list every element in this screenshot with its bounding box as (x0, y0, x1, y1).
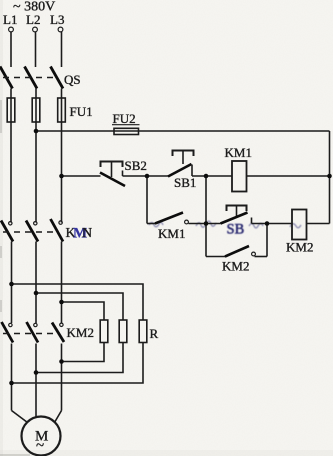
svg-text:FU1: FU1 (70, 104, 93, 119)
svg-text:~: ~ (36, 438, 44, 454)
svg-text:R: R (150, 326, 159, 341)
svg-text:QS: QS (64, 72, 81, 87)
svg-text:FU2: FU2 (113, 111, 136, 126)
svg-text:KM2: KM2 (222, 259, 249, 274)
svg-text:KM1: KM1 (225, 145, 252, 160)
svg-text:KM2: KM2 (286, 240, 313, 255)
svg-text:SB1: SB1 (174, 175, 196, 190)
svg-text:SB2: SB2 (125, 158, 147, 173)
svg-text:L3: L3 (50, 12, 64, 27)
svg-text:L2: L2 (26, 12, 40, 27)
svg-text:L1: L1 (3, 12, 17, 27)
svg-text:KM2: KM2 (67, 325, 94, 340)
svg-text:N: N (82, 226, 92, 241)
svg-text:SB: SB (227, 222, 245, 238)
svg-text:KM1: KM1 (158, 226, 185, 241)
